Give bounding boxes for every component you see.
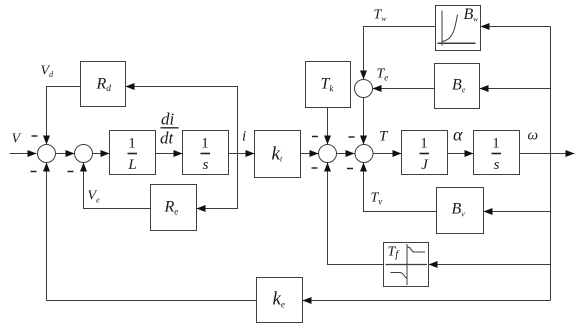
svg-text:1: 1 — [201, 136, 209, 152]
svg-text:s: s — [203, 157, 209, 173]
svg-text:Ve: Ve — [88, 189, 101, 205]
svg-text:1: 1 — [128, 136, 136, 152]
svg-text:V: V — [12, 132, 22, 147]
svg-text:T: T — [379, 129, 389, 145]
svg-text:di: di — [161, 110, 175, 129]
svg-text:s: s — [494, 157, 500, 173]
svg-text:1: 1 — [492, 136, 500, 152]
svg-text:i: i — [242, 129, 246, 145]
svg-text:L: L — [127, 157, 136, 173]
svg-text:Vd: Vd — [41, 64, 55, 80]
svg-text:Te: Te — [377, 67, 389, 83]
svg-text:α: α — [453, 125, 463, 145]
svg-text:dt: dt — [160, 129, 175, 148]
svg-text:ω: ω — [528, 128, 539, 144]
svg-text:1: 1 — [420, 136, 428, 152]
svg-text:Tw: Tw — [374, 8, 387, 24]
svg-text:Tv: Tv — [371, 191, 383, 207]
